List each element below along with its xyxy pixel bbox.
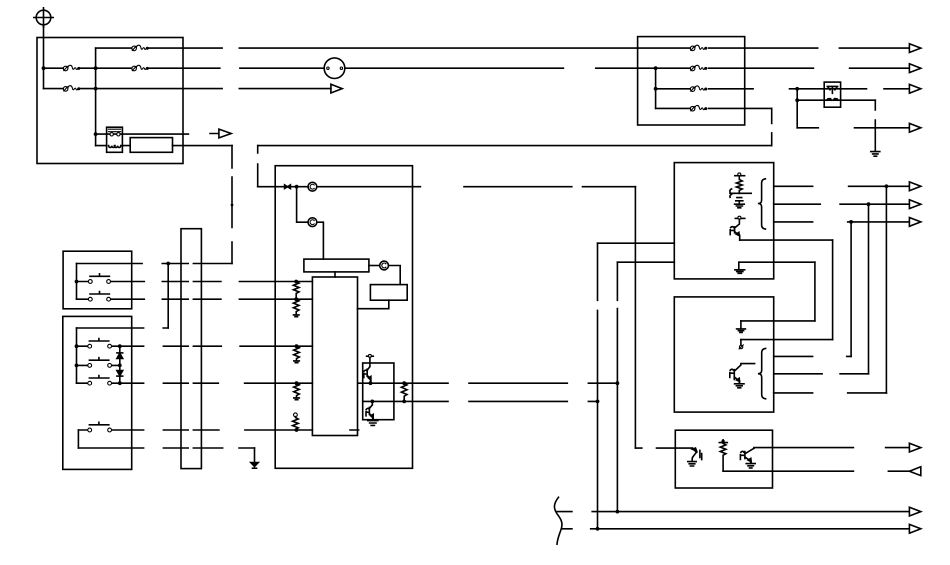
PE terminal circle bbox=[34, 8, 53, 27]
wire SA feed vertical bbox=[76, 264, 78, 300]
wire B out2 bbox=[774, 373, 869, 375]
wire drop to lamp2 bbox=[297, 187, 308, 223]
io box B bbox=[674, 297, 773, 412]
wire diode column bbox=[119, 346, 121, 383]
wire S6 left drop bbox=[77, 430, 79, 448]
wire row 127.8 bbox=[797, 127, 909, 129]
terminal T1 bbox=[367, 354, 374, 357]
node dot K2-2 bbox=[654, 87, 658, 91]
capacitor CA1 bbox=[730, 189, 751, 204]
wire A out3 bbox=[774, 221, 910, 223]
control box U1 bbox=[275, 166, 412, 469]
node dot 597-528 bbox=[596, 527, 600, 531]
contact circle a1 bbox=[110, 133, 113, 136]
wire L3 bbox=[44, 88, 331, 90]
fuse F5 bbox=[690, 65, 707, 71]
wire Z1 bottom row bbox=[797, 99, 875, 101]
terminal strip bus bbox=[181, 229, 201, 469]
node dot R2 top bbox=[294, 297, 298, 301]
node dot contactor tap bbox=[94, 132, 98, 136]
break mark S-curve bbox=[554, 497, 562, 544]
wire pilot row 186.7 bbox=[258, 186, 636, 188]
wire coil row bbox=[96, 145, 232, 147]
contact circle a2 bbox=[117, 133, 120, 136]
brace A bbox=[758, 179, 766, 229]
wire Z1 left link bbox=[796, 89, 798, 128]
overload relay coil box bbox=[130, 138, 172, 153]
pushbutton S1 bbox=[77, 274, 132, 284]
node dot pilot bbox=[295, 185, 299, 189]
NC contact block K1a bbox=[107, 127, 123, 152]
node dot row E end bbox=[616, 381, 620, 385]
wire row D out bbox=[132, 345, 313, 347]
arrow A10 bbox=[909, 507, 920, 516]
arrow A6 bbox=[909, 200, 920, 209]
fuse F3 bbox=[63, 65, 80, 71]
node dot Q2 top bbox=[370, 400, 374, 404]
node dot L1 bbox=[42, 66, 46, 70]
arrow A8 bbox=[909, 443, 920, 452]
EMI filter Z1 bbox=[824, 82, 840, 107]
node dot R1 top bbox=[294, 280, 298, 284]
wire stem to PLC bbox=[334, 272, 336, 277]
resistor R4 bbox=[294, 383, 300, 400]
wire ground row 262 bbox=[739, 261, 815, 263]
resistor R5 with terminal bbox=[293, 413, 299, 430]
pushbutton S4 bbox=[77, 358, 119, 368]
ground B1 bbox=[737, 321, 746, 333]
diode D2 bbox=[117, 371, 123, 377]
node dot SB2 bbox=[75, 364, 79, 368]
thermal element squiggles bbox=[109, 146, 121, 148]
wire A out1 bbox=[774, 185, 910, 187]
node dot SA bbox=[75, 280, 79, 284]
fuse F2 bbox=[690, 45, 707, 51]
wire L2 bbox=[44, 67, 910, 69]
pushbutton S5 bbox=[77, 376, 132, 386]
fuse box K2 bbox=[638, 37, 745, 125]
wire K2 feed vertical bbox=[655, 68, 657, 108]
ground QC2 bbox=[746, 464, 755, 468]
wire drop 635 bbox=[634, 187, 636, 448]
node dot 617-511 bbox=[616, 510, 620, 514]
wire riser 868 bbox=[868, 204, 870, 374]
PLC block rect bbox=[312, 277, 357, 436]
arrow A1 bbox=[909, 44, 920, 53]
pushbutton S3 bbox=[77, 339, 132, 349]
node dot phase1-2 bbox=[94, 66, 98, 70]
aux rect A2 bbox=[370, 285, 407, 301]
node dot dc3 bbox=[118, 381, 122, 385]
arrow A7 bbox=[909, 218, 920, 227]
wire row 108 bbox=[656, 107, 772, 109]
resistor R1 bbox=[293, 282, 299, 300]
arrow A3 bbox=[909, 84, 920, 93]
fuse F6 bbox=[63, 86, 80, 92]
wire lamp2 to relay rect bbox=[317, 222, 324, 259]
arrow A2 bbox=[909, 64, 920, 73]
wire B out3 bbox=[774, 392, 887, 394]
node dot A out3 bbox=[849, 220, 853, 224]
node dot SB1 bbox=[75, 344, 79, 348]
terminal TA1 bbox=[735, 173, 745, 176]
transistor QC2 bbox=[740, 448, 754, 463]
wire phase1 riser bbox=[95, 48, 97, 146]
wire row A inside bbox=[77, 263, 233, 265]
node dot dc1 bbox=[118, 344, 122, 348]
node dot R3 top bbox=[295, 344, 299, 348]
ground Q2 bbox=[368, 421, 378, 426]
ground QB bbox=[735, 384, 744, 388]
fuse F1 bbox=[132, 45, 149, 51]
brace B bbox=[758, 348, 766, 398]
ground G1 bbox=[251, 448, 258, 468]
incomer box K1 bbox=[37, 38, 183, 164]
lamp H1 bbox=[308, 182, 317, 191]
wire H3 to aux rect bbox=[389, 266, 401, 285]
node dot Z1 in2 bbox=[795, 98, 799, 102]
node dot A out2 bbox=[867, 202, 871, 206]
node dot K2-1 bbox=[654, 66, 658, 70]
wire drop 814 bbox=[814, 262, 816, 321]
node dot phase1-3 bbox=[94, 87, 98, 91]
wire B out1 bbox=[774, 355, 851, 357]
switch box S-A bbox=[63, 251, 132, 309]
node dot R5 bottom bbox=[295, 428, 299, 432]
node dot row 401 end bbox=[596, 400, 600, 404]
wire feed 243 bbox=[598, 242, 675, 244]
wire drop 597 bbox=[597, 243, 599, 529]
fuse F4 bbox=[132, 65, 149, 71]
wire row E out bbox=[132, 382, 313, 384]
node dot R6 bottom bbox=[402, 400, 406, 404]
wire bottom feed 511 bbox=[557, 511, 910, 513]
wire long control feed bbox=[258, 145, 772, 147]
wire row C out bbox=[132, 298, 313, 300]
wire C base feed bbox=[635, 447, 692, 449]
wire link 168 vertical bbox=[167, 264, 169, 329]
arrow A11 bbox=[909, 524, 920, 533]
ground QC1 bbox=[688, 462, 696, 466]
wire drop 832 bbox=[832, 240, 834, 340]
node dot RC top bbox=[721, 440, 724, 443]
wire row F out bbox=[132, 429, 359, 431]
fuse F7 bbox=[690, 86, 707, 92]
wire aux contact row bbox=[96, 133, 189, 135]
wire B row 339 bbox=[741, 339, 833, 341]
relay coil rect A1 bbox=[304, 259, 369, 272]
wire L1 top bbox=[96, 47, 910, 49]
arrow A5 bbox=[909, 182, 920, 191]
pushbutton S2 bbox=[77, 292, 132, 302]
terminal TA2 bbox=[735, 216, 745, 219]
node dot R4 top bbox=[295, 381, 299, 385]
arrow A9 left bbox=[909, 467, 920, 476]
lamp H3 bbox=[380, 261, 389, 270]
diode D1 bbox=[117, 353, 123, 359]
arrow aux out bbox=[210, 129, 231, 138]
io box A bbox=[674, 163, 773, 279]
fuse F8 bbox=[690, 105, 707, 111]
wire feed 262 bbox=[617, 261, 674, 263]
wire QA out bbox=[740, 239, 833, 241]
io box C bbox=[675, 430, 772, 488]
opto transistor QB bbox=[730, 364, 755, 384]
wire C out1 row bbox=[754, 447, 910, 450]
wire SB feed vertical bbox=[76, 328, 78, 383]
pushbutton S6 bbox=[78, 422, 131, 432]
meter circle P1 bbox=[324, 58, 345, 79]
arrow out L3 bbox=[331, 84, 342, 93]
wire A out2 bbox=[774, 203, 910, 205]
node dot Q1 emitter bbox=[369, 381, 373, 385]
lamp H2 bbox=[308, 218, 317, 227]
wire riser 851 bbox=[850, 222, 852, 357]
diode pair bowtie bbox=[285, 185, 291, 189]
node dot row A tap bbox=[166, 262, 170, 266]
wire bottom feed 528 bbox=[561, 528, 909, 530]
wire row B out bbox=[132, 281, 313, 283]
wire PE stem down bbox=[43, 25, 45, 89]
wire row top (328) bbox=[77, 327, 169, 329]
arrow A4 bbox=[909, 123, 920, 132]
resistor RA1 bbox=[736, 176, 742, 193]
ground Z1 bbox=[871, 152, 880, 157]
wire row 88 right bbox=[656, 88, 910, 90]
resistor R6 bbox=[401, 383, 407, 401]
resistor R3 bbox=[294, 346, 300, 363]
node dot R6 top bbox=[402, 381, 406, 385]
resistor R2 bbox=[293, 299, 299, 317]
opto transistor QA bbox=[730, 219, 740, 240]
wire drop 771 bbox=[771, 108, 773, 145]
output module sub-box bbox=[363, 363, 394, 420]
wire row E through module bbox=[358, 382, 617, 384]
transistor Q2 bbox=[366, 401, 373, 420]
node dot on drop bbox=[231, 204, 234, 207]
wire riser 886 bbox=[885, 186, 887, 393]
wire rect to H3 bbox=[369, 265, 380, 267]
node dot A out1 bbox=[885, 184, 889, 188]
wire B ground row bbox=[741, 320, 815, 322]
wire row 401 bbox=[363, 400, 598, 402]
terminal TB1 bbox=[739, 340, 743, 349]
opto LED QC1 bbox=[692, 448, 702, 461]
wire aux rect return bbox=[358, 300, 389, 309]
ground CA1 bbox=[735, 204, 745, 208]
switch box S-B bbox=[63, 316, 132, 469]
wire drop 617 bbox=[616, 262, 618, 511]
ground A bottom bbox=[735, 262, 745, 273]
wire vertical drop to pilot row bbox=[257, 146, 259, 187]
transistor Q1 bbox=[364, 357, 371, 383]
pullup RC bbox=[719, 440, 727, 471]
wire C out2 row bbox=[723, 470, 911, 472]
wire row G out bbox=[78, 447, 254, 449]
wire Z1 right drop bbox=[874, 100, 876, 151]
node dot Z1 in1 bbox=[795, 87, 799, 91]
wire vertical drop to bus row A bbox=[231, 146, 233, 264]
node dot dc2 bbox=[118, 364, 122, 368]
